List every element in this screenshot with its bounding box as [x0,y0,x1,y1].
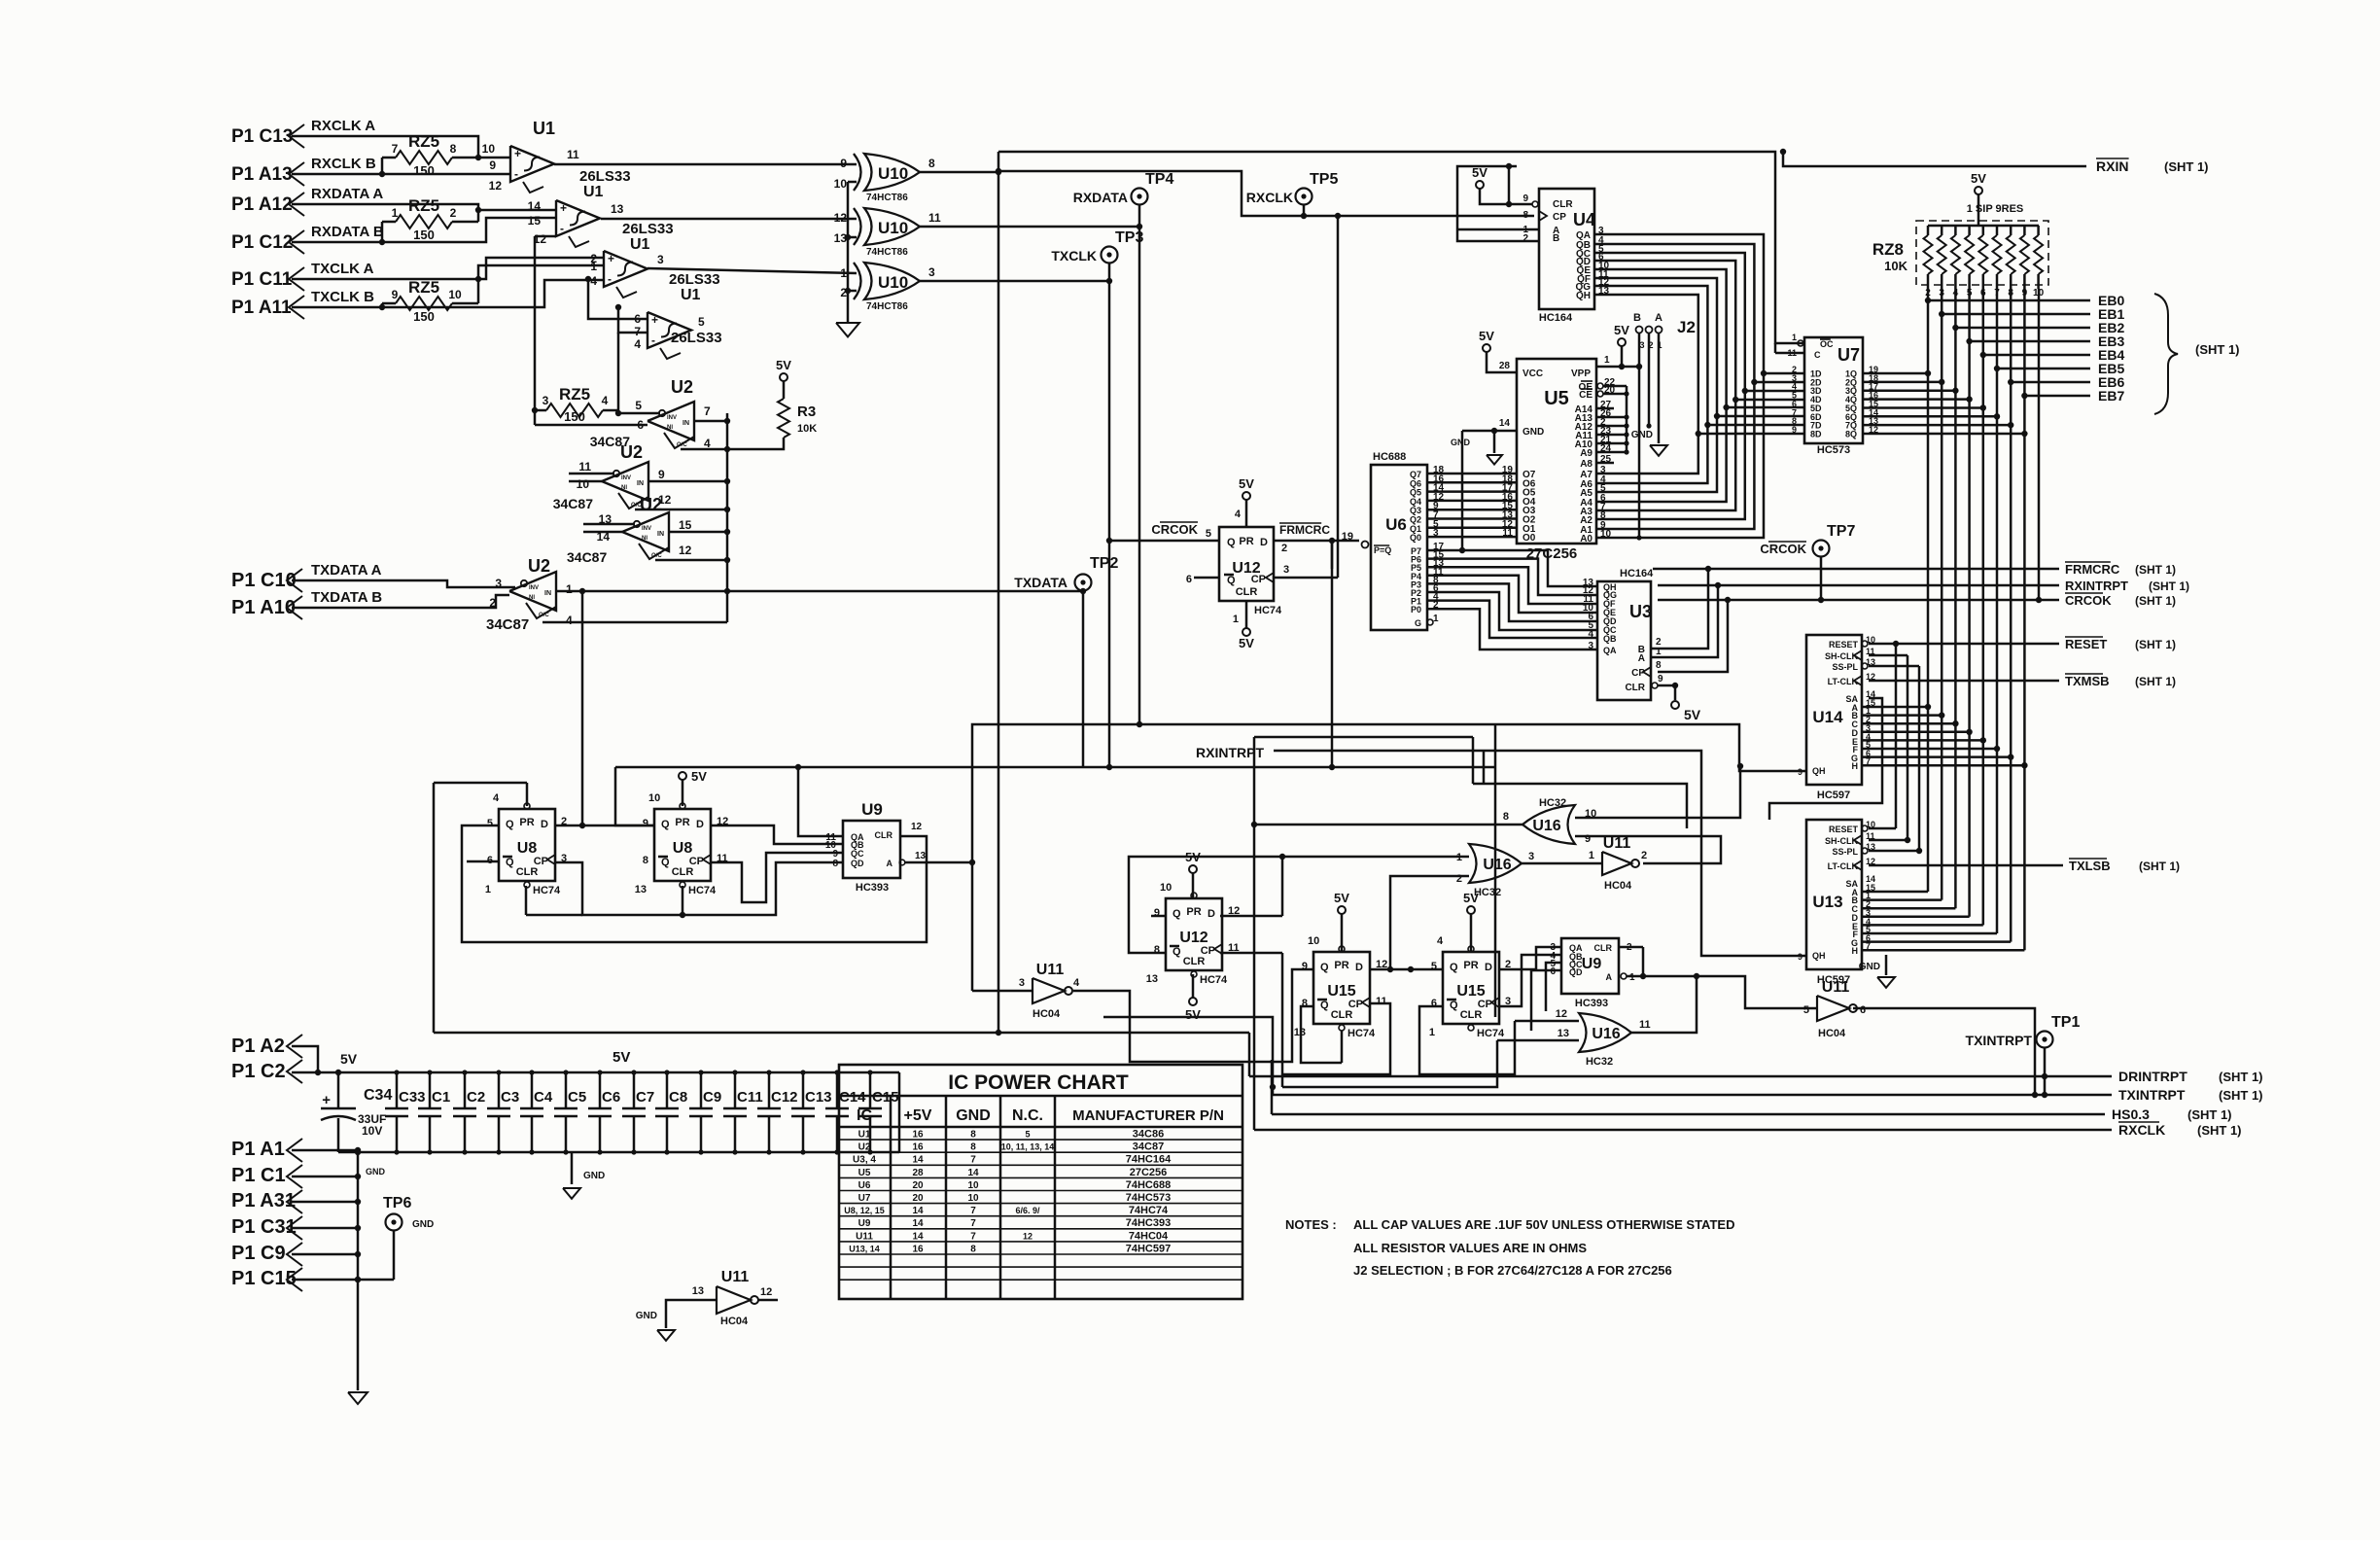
svg-text:11: 11 [1376,996,1387,1007]
svg-text:C: C [1814,350,1821,360]
svg-text:12: 12 [489,179,503,193]
svg-text:5V: 5V [691,769,707,784]
svg-text:4: 4 [634,337,641,351]
svg-text:HC688: HC688 [1373,451,1406,463]
svg-text:U8: U8 [517,840,538,857]
svg-text:H: H [1852,946,1859,956]
wire U11#4 input from GND [666,1300,717,1328]
svg-text:U5: U5 [858,1168,871,1178]
svg-text:12: 12 [1023,1231,1032,1241]
flip-flop U12 (HC74) #2 [1166,898,1222,970]
wire U8#2 Q up to RXINTRPT bus [615,767,654,825]
comparator U6 74HC688 [1371,465,1427,630]
svg-text:13: 13 [1146,973,1158,985]
svg-text:U13, 14: U13, 14 [849,1244,880,1253]
wire bundle U4 outputs to U7 inputs and U5 address (nested) [1614,234,1764,538]
svg-text:HS0.3: HS0.3 [2112,1106,2150,1122]
svg-text:RXINTRPT: RXINTRPT [2065,579,2128,593]
svg-text:HC573: HC573 [1817,444,1850,456]
svg-text:74HC04: 74HC04 [1129,1230,1169,1242]
wire U16#3 inputs [1515,1020,1579,1023]
wire U4 A/B feedback [1457,166,1539,241]
svg-text:P1 A31: P1 A31 [231,1190,296,1211]
svg-text:TXINTRPT: TXINTRPT [2118,1087,2186,1103]
svg-text:1: 1 [1433,614,1439,624]
svg-text:QD: QD [851,859,864,868]
svg-text:20: 20 [912,1193,924,1204]
wire U15#1 CLR stub [1341,1031,1344,1063]
wire U1#4 inputs [588,279,647,319]
wire U8#1 D to U8#2 Q [555,825,654,827]
svg-text:U8: U8 [673,840,693,857]
svg-text:34C87: 34C87 [567,549,607,565]
5V for U12#1 CLR [1245,601,1248,628]
ground at U11#4 [657,1330,675,1341]
wire U2#4 pin4 tail [542,621,727,624]
svg-text:9: 9 [489,158,496,172]
svg-text:D: D [1260,537,1268,548]
svg-text:LT-CLK: LT-CLK [1828,677,1859,686]
wire U13 QH to bus [1484,751,1806,956]
wire U12#2 Q stub [1151,915,1166,918]
svg-text:20: 20 [912,1180,924,1191]
svg-text:U10: U10 [878,273,908,292]
flip-flop U15 (HC74) #2 [1443,952,1499,1024]
svg-text:74HC164: 74HC164 [1126,1154,1172,1166]
resistor R3 10K [778,399,789,438]
svg-text:U14: U14 [1812,708,1843,726]
svg-text:C13: C13 [805,1089,832,1106]
svg-text:10V: 10V [362,1124,382,1138]
wire U14 SH-CLK stub [1869,654,1907,657]
wire U2#1 out7 [694,420,727,423]
svg-text:C6: C6 [602,1089,620,1106]
svg-text:CLR: CLR [672,866,694,878]
svg-text:(SHT 1): (SHT 1) [2197,1123,2242,1138]
svg-text:IC: IC [857,1107,872,1124]
wire vertical x1290 lower [1253,825,1256,1060]
svg-text:HC04: HC04 [1032,1008,1061,1020]
svg-text:4: 4 [1073,977,1080,989]
svg-text:P1 C9: P1 C9 [231,1243,286,1264]
svg-text:8: 8 [1656,660,1662,671]
wire RXDATA A [292,204,556,210]
svg-text:14: 14 [912,1231,924,1242]
wire left loop vertical [433,783,436,1033]
svg-text:Q: Q [661,857,670,868]
wire U14 LT-CLK TXMSB [1869,680,2059,683]
svg-text:CLR: CLR [1594,943,1613,953]
wire U15#1 Qbar loop [1301,1006,1342,1063]
svg-text:CLR: CLR [1553,199,1573,210]
wire U14 data stubs to EB columns [1862,706,1928,709]
svg-text:27C256: 27C256 [1526,545,1578,562]
svg-text:5: 5 [487,818,493,829]
5V for U8#2 PR [679,772,686,780]
svg-text:CLR: CLR [516,866,539,878]
OR gate U16 (HC32) #3 [1579,1013,1631,1052]
wire U15#2 outputs to U9#2 [1499,947,1561,969]
svg-text:(SHT 1): (SHT 1) [2187,1107,2232,1122]
svg-text:CRCOK: CRCOK [1151,522,1198,537]
test point TP4 RXDATA [1132,189,1148,205]
svg-text:(SHT 1): (SHT 1) [2135,594,2176,608]
svg-text:U2: U2 [620,442,643,462]
svg-text:A: A [1638,653,1645,664]
wire from U1#2 pin12 down [534,236,537,425]
svg-text:12: 12 [911,822,923,832]
wire U10 second inputs to ground [848,181,857,184]
wire U9 QA from bus [798,767,843,836]
svg-text:12: 12 [834,211,848,225]
wire TXDATA B [292,595,509,608]
svg-text:11: 11 [567,148,579,161]
svg-text:16: 16 [912,1130,924,1141]
svg-text:TP7: TP7 [1827,523,1855,540]
svg-text:U11: U11 [856,1231,873,1242]
svg-text:U10: U10 [878,164,908,183]
svg-text:74HC597: 74HC597 [1126,1243,1171,1254]
wire U13 SS-PL [1869,850,1919,853]
svg-text:3: 3 [542,394,549,407]
svg-text:6: 6 [1550,966,1556,977]
svg-text:U1: U1 [533,119,555,138]
OR gate U16 (HC32) #2 [1469,844,1522,883]
EB0-EB7 bus lines and labels [1928,299,2090,302]
wire HSO.3 to sheet1 [1272,1113,2105,1116]
svg-text:10: 10 [482,142,496,156]
svg-text:10: 10 [1160,882,1172,894]
svg-text:U13: U13 [1812,893,1842,911]
svg-text:150: 150 [413,309,435,324]
svg-text:N.C.: N.C. [1012,1107,1043,1124]
wire U13 RESET link [1869,827,1896,830]
wire U9#1 A out [905,861,972,864]
svg-text:U2: U2 [528,556,550,576]
svg-text:3: 3 [928,265,935,279]
svg-text:GND: GND [1859,962,1880,972]
svg-text:(SHT 1): (SHT 1) [2139,860,2180,873]
wire FRMCRC down to mid bus [1331,541,1334,767]
svg-text:26LS33: 26LS33 [622,221,674,237]
svg-text:HC74: HC74 [1347,1028,1376,1039]
svg-text:P1 A11: P1 A11 [231,298,292,318]
wire U12#2 D to feedback [1220,915,1282,918]
svg-text:C9: C9 [703,1089,721,1106]
wire U14 QH to bus [1495,724,1806,771]
svg-text:CRCOK: CRCOK [2065,593,2112,608]
svg-text:C14: C14 [839,1089,866,1106]
svg-text:QH: QH [1576,291,1591,301]
svg-text:28: 28 [912,1168,924,1178]
svg-text:EB7: EB7 [2098,388,2124,404]
svg-text:U11: U11 [721,1269,750,1285]
svg-text:IN: IN [657,531,664,538]
wire U11#1 output [1073,969,1314,1062]
svg-text:QC: QC [851,849,864,859]
svg-text:D: D [1207,908,1215,920]
svg-text:J2 SELECTION ; B FOR 27C64/27C: J2 SELECTION ; B FOR 27C64/27C128 A FOR … [1353,1263,1672,1278]
svg-text:16: 16 [912,1244,924,1254]
svg-text:(SHT 1): (SHT 1) [2135,638,2176,651]
svg-text:HC164: HC164 [1539,312,1573,324]
svg-text:GND: GND [636,1311,657,1321]
EB bus verticals [1927,289,1930,300]
wire U16#2 inputs [1282,856,1469,859]
svg-text:NOTES :: NOTES : [1285,1217,1337,1232]
wire mid bus RXDATA turn [972,724,1139,991]
5V for U12#2 PR [1189,865,1197,873]
svg-text:PR: PR [519,817,534,828]
test point TP7 CRCOK [1813,541,1830,557]
wire U8 CLR rail [525,886,528,915]
svg-text:QH: QH [1812,766,1826,776]
wire mid bus y758 [1254,736,1473,739]
svg-text:4: 4 [566,614,573,627]
svg-text:C3: C3 [501,1089,519,1106]
svg-text:26LS33: 26LS33 [671,330,722,346]
svg-text:Q: Q [506,857,514,868]
wire U15#1 Q to U15#2 [1371,968,1443,971]
wire U14 RESET to sheet1 [1869,643,2059,646]
svg-text:150: 150 [564,409,585,424]
svg-text:1: 1 [1629,972,1635,983]
svg-text:U5: U5 [1544,388,1569,409]
svg-text:12: 12 [679,544,692,557]
wire RXCLK down to U12 CP [1337,216,1340,578]
svg-text:7: 7 [970,1155,976,1166]
wire U3 B to FRMCRC line [1651,569,1708,649]
svg-text:GND: GND [583,1171,605,1181]
svg-text:5: 5 [1025,1130,1030,1140]
svg-text:8: 8 [928,157,935,170]
svg-text:(SHT 1): (SHT 1) [2219,1088,2263,1103]
svg-text:ALL CAP VALUES ARE .1UF 50V UN: ALL CAP VALUES ARE .1UF 50V UNLESS OTHER… [1353,1217,1734,1232]
wire U12#1 Qbar stub [1194,577,1219,579]
svg-text:CP: CP [1348,999,1363,1010]
svg-text:HC74: HC74 [1477,1028,1505,1039]
wire vertical left ends [1253,1060,1256,1130]
svg-text:SH-CLK: SH-CLK [1825,651,1858,661]
svg-text:4: 4 [1235,509,1242,520]
svg-text:(SHT 1): (SHT 1) [2219,1070,2263,1084]
svg-text:5: 5 [1803,1004,1809,1016]
svg-text:5V: 5V [1239,636,1254,650]
wire RXDATA from U10#2 to TP4 [920,226,1139,228]
svg-text:VCC: VCC [1522,369,1543,379]
svg-text:GND: GND [366,1167,386,1176]
svg-text:PR: PR [1334,960,1348,971]
5V below U12#2 [1192,974,1195,998]
svg-text:26LS33: 26LS33 [669,271,720,288]
svg-text:Q: Q [1227,537,1236,548]
svg-text:8: 8 [1503,811,1509,823]
svg-text:RZ8: RZ8 [1872,240,1904,259]
svg-text:4: 4 [590,274,597,288]
svg-text:+5V: +5V [904,1107,932,1124]
svg-text:TXCLK A: TXCLK A [311,261,374,277]
5V for U15#2 [1467,906,1475,914]
svg-text:-: - [514,167,518,181]
svg-text:(SHT 1): (SHT 1) [2149,579,2189,593]
svg-text:CLR: CLR [1236,586,1258,598]
svg-text:74HCT86: 74HCT86 [866,301,908,312]
svg-text:5V: 5V [1185,1007,1201,1022]
svg-text:7: 7 [392,142,399,156]
wire U1#2 out to U10#2 [601,218,857,221]
wire U1#3 pin1 [478,265,604,279]
svg-text:C2: C2 [467,1089,485,1106]
svg-text:A: A [887,859,893,868]
wire RXDATA down [1138,227,1141,724]
svg-text:10: 10 [967,1193,979,1204]
svg-text:5V: 5V [1614,323,1629,337]
wire U15#1 CP stub [1282,1003,1390,1074]
svg-text:2: 2 [1522,233,1528,244]
svg-text:U11: U11 [1036,962,1065,978]
svg-text:CE: CE [1579,390,1592,401]
table IC POWER CHART [839,1065,1242,1299]
svg-text:34C87: 34C87 [486,616,529,633]
svg-text:HC04: HC04 [720,1316,749,1327]
svg-text:16: 16 [912,1142,924,1153]
svg-text:19: 19 [1342,531,1353,543]
svg-text:3: 3 [1283,564,1289,576]
op-amp U1 receiver 26LS33 #4 [647,312,691,348]
svg-text:HC74: HC74 [688,885,717,896]
svg-text:74HC688: 74HC688 [1126,1179,1171,1191]
svg-text:D: D [696,819,704,830]
test point TP5 RXCLK [1296,189,1312,205]
svg-text:10: 10 [648,792,660,804]
resistor RZ5 (3-4) 150 [546,404,603,417]
svg-text:2: 2 [489,596,496,610]
svg-text:A8: A8 [1580,459,1592,470]
test point TP6 GND [386,1214,402,1231]
wire U3 CLR to 5V [1658,685,1675,700]
svg-text:B: B [1553,233,1559,244]
svg-text:4: 4 [602,394,609,407]
wire U9#2 A output [1627,976,1817,1008]
capacitor C34 33UF 10V [337,1072,340,1108]
svg-text:U12: U12 [1179,930,1207,946]
svg-text:3: 3 [1528,851,1534,862]
svg-text:(SHT 1): (SHT 1) [2135,675,2176,688]
wire U14 SS-PL stub [1869,665,1919,668]
svg-text:VPP: VPP [1571,369,1591,379]
wire U16#1 input 10 [1575,766,1740,818]
wire U13 LT-CLK TXLSB [1869,864,2063,867]
wire mid bus 4 [1253,737,1256,825]
svg-text:INV: INV [621,475,631,481]
svg-text:1: 1 [590,260,597,273]
svg-text:GND: GND [1522,427,1544,438]
svg-text:1: 1 [1589,850,1594,861]
svg-text:9: 9 [643,818,648,829]
svg-text:8: 8 [450,142,457,156]
svg-text:1: 1 [1233,614,1239,625]
wire U2#2 pin12 tail [635,509,727,511]
svg-text:5V: 5V [1684,707,1701,722]
svg-text:74HC74: 74HC74 [1129,1205,1169,1216]
test point TP1 TXINTRPT [2037,1032,2053,1048]
svg-text:12: 12 [760,1286,772,1298]
wire U2#3 out15 [669,531,727,534]
svg-text:-: - [651,334,655,347]
flip-flop U8 (HC74) #1 [499,809,555,881]
svg-text:R3: R3 [797,404,816,420]
wire U11#1 input [972,990,1032,993]
svg-text:U11: U11 [1603,835,1631,852]
op-amp U1 receiver 26LS33 #1 [510,146,554,182]
5V for RZ8 [1975,187,1982,194]
svg-text:1: 1 [1604,355,1610,366]
svg-text:2: 2 [1641,850,1647,861]
svg-text:C4: C4 [534,1089,553,1106]
svg-text:9: 9 [1658,674,1663,685]
wire y1062 to DRINTRPT [1248,1033,1251,1076]
resistor RZ5 (7-8) 150 [396,151,452,164]
svg-text:1: 1 [392,206,399,220]
wire DRINTRPT to sheet1 [1249,1075,2112,1078]
svg-text:150: 150 [413,163,435,178]
svg-text:P=Q: P=Q [1374,545,1391,555]
svg-text:Q0: Q0 [1410,533,1421,543]
svg-text:U4: U4 [1573,210,1595,229]
svg-text:OC: OC [1820,339,1834,349]
svg-text:RESET: RESET [1829,640,1859,650]
wire U8#1 PR rail [434,782,527,785]
wire TXCLK down [1108,281,1111,767]
svg-text:GND: GND [1631,430,1653,440]
svg-text:9: 9 [658,468,665,481]
svg-text:CP: CP [1201,945,1215,957]
svg-text:TP6: TP6 [383,1195,411,1211]
svg-text:G: G [1415,618,1421,628]
wire RXCLK A [292,136,510,158]
svg-text:3: 3 [1588,641,1593,651]
flip-flop U15 (HC74) #1 [1313,952,1370,1024]
svg-text:U2: U2 [640,495,662,514]
svg-text:1 SIP 9RES: 1 SIP 9RES [1967,203,2024,215]
svg-text:IN: IN [637,480,644,487]
wire TXCLK from U10#3 to TP3 [920,280,1109,283]
svg-text:U1: U1 [858,1130,871,1141]
svg-text:HC597: HC597 [1817,790,1850,801]
svg-text:74HC393: 74HC393 [1126,1217,1171,1229]
wire U8#1 Qbar stub [467,860,499,863]
wire U2#3 pin12 tail [655,559,727,562]
wire U2#1 pin6 [535,424,647,427]
svg-text:QH: QH [1812,951,1826,961]
svg-text:GND: GND [412,1219,434,1230]
5V for U5 VPP [1618,338,1626,346]
svg-text:ALL RESISTOR VALUES ARE IN OHM: ALL RESISTOR VALUES ARE IN OHMS [1353,1241,1587,1255]
svg-text:FRMCRC: FRMCRC [1279,523,1330,537]
svg-text:RXCLK B: RXCLK B [311,156,376,172]
wire left ground vertical [357,1152,360,1390]
counter U9 (HC393) #1 [843,821,900,878]
svg-text:U6: U6 [858,1180,871,1191]
svg-text:TXDATA A: TXDATA A [311,562,382,579]
svg-text:2: 2 [450,206,457,220]
svg-text:10: 10 [834,177,848,191]
wire long bottom loop [434,1032,1249,1035]
wire U3 A to RXINTRPT line [1651,585,1718,657]
wire U16#2 output [1520,862,1602,865]
svg-text:CLR: CLR [1460,1009,1483,1021]
svg-text:HC04: HC04 [1818,1028,1846,1039]
